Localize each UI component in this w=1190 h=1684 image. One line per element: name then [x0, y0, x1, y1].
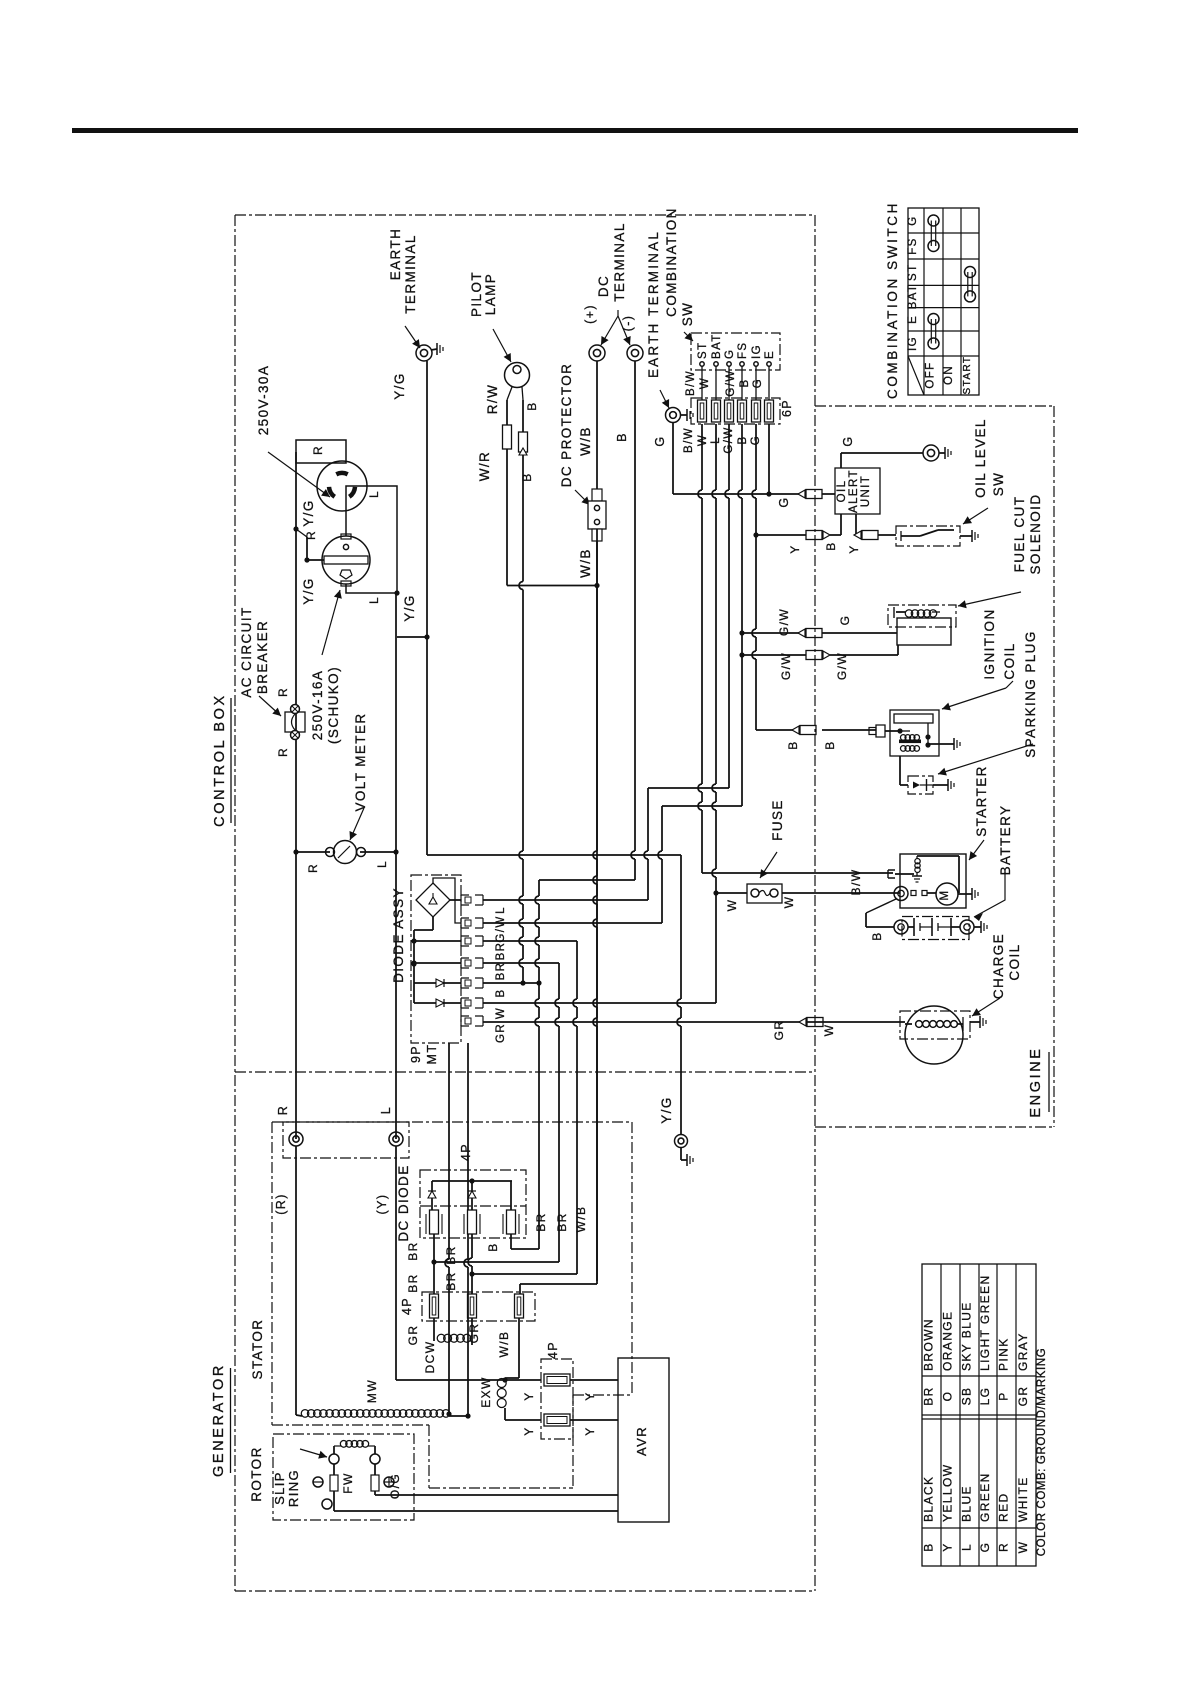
svg-text:BR: BR: [444, 1245, 458, 1264]
svg-text:G: G: [978, 1542, 992, 1553]
svg-text:L: L: [495, 906, 507, 914]
svg-text:OFF: OFF: [925, 361, 937, 388]
svg-text:EARTH TERMINAL: EARTH TERMINAL: [646, 230, 661, 378]
svg-text:B/W: B/W: [849, 869, 863, 896]
svg-text:G/W: G/W: [835, 652, 849, 680]
svg-text:W: W: [822, 1024, 836, 1037]
svg-text:BLACK: BLACK: [922, 1476, 936, 1522]
svg-text:Y/G: Y/G: [301, 577, 316, 604]
svg-text:COLOR COMB: GROUND/MARKING: COLOR COMB: GROUND/MARKING: [1036, 1348, 1048, 1557]
svg-text:G: G: [841, 435, 855, 446]
svg-text:BR: BR: [406, 1241, 420, 1260]
svg-text:WHITE: WHITE: [1016, 1476, 1030, 1522]
svg-text:G: G: [752, 378, 764, 388]
svg-text:M: M: [939, 890, 951, 901]
svg-text:B: B: [737, 435, 749, 444]
svg-text:W: W: [495, 1007, 507, 1019]
svg-text:BR: BR: [534, 1212, 548, 1231]
svg-text:G/W: G/W: [777, 608, 791, 636]
svg-text:DC PROTECTOR: DC PROTECTOR: [559, 363, 574, 488]
svg-text:START: START: [962, 356, 973, 395]
svg-text:(R): (R): [274, 1193, 288, 1215]
svg-text:G: G: [653, 435, 667, 446]
svg-text:E: E: [907, 315, 919, 324]
svg-text:LIGHT GREEN: LIGHT GREEN: [978, 1274, 992, 1371]
svg-text:COMBINATION: COMBINATION: [664, 207, 679, 317]
svg-text:Y: Y: [941, 1542, 955, 1551]
svg-text:Y/G: Y/G: [402, 594, 417, 621]
svg-text:B: B: [786, 740, 800, 749]
svg-text:G/W: G/W: [495, 915, 507, 942]
svg-text:(Y): (Y): [375, 1194, 389, 1215]
svg-text:G: G: [907, 215, 919, 225]
svg-text:Y: Y: [788, 544, 802, 553]
svg-text:BAT: BAT: [907, 284, 919, 310]
svg-text:Y/G: Y/G: [301, 499, 316, 526]
svg-text:Y: Y: [522, 1426, 536, 1435]
svg-text:ON: ON: [943, 365, 955, 385]
svg-text:B/W: B/W: [685, 370, 697, 396]
svg-text:R: R: [304, 530, 318, 540]
svg-text:BR: BR: [495, 962, 507, 981]
svg-text:GREEN: GREEN: [978, 1472, 992, 1522]
svg-text:BAT: BAT: [711, 333, 723, 359]
svg-text:GR: GR: [772, 1020, 786, 1041]
svg-text:OIL LEVEL: OIL LEVEL: [973, 418, 988, 498]
svg-text:GR: GR: [495, 1023, 507, 1043]
svg-text:SPARKING PLUG: SPARKING PLUG: [1023, 630, 1038, 757]
svg-text:Y/G: Y/G: [659, 1096, 674, 1123]
svg-text:YELLOW: YELLOW: [941, 1464, 955, 1522]
svg-text:G/W: G/W: [725, 369, 737, 396]
svg-text:MT: MT: [425, 1044, 439, 1065]
svg-text:Y/G: Y/G: [392, 372, 407, 399]
svg-text:ENGINE: ENGINE: [1028, 1046, 1044, 1117]
svg-text:SLIP: SLIP: [272, 1471, 287, 1505]
svg-text:BROWN: BROWN: [922, 1318, 936, 1371]
svg-text:IG: IG: [751, 344, 763, 359]
svg-text:VOLT METER: VOLT METER: [353, 712, 368, 811]
svg-text:GR: GR: [467, 1323, 481, 1344]
svg-text:STARTER: STARTER: [974, 765, 989, 837]
svg-text:CONTROL BOX: CONTROL BOX: [212, 693, 228, 827]
svg-text:BR: BR: [922, 1386, 936, 1405]
svg-text:G: G: [724, 349, 736, 359]
svg-text:IGNITION: IGNITION: [982, 608, 997, 679]
svg-text:B: B: [525, 401, 539, 410]
svg-text:PINK: PINK: [997, 1337, 1011, 1371]
svg-text:AVR: AVR: [634, 1426, 649, 1456]
svg-text:9P: 9P: [409, 1045, 423, 1063]
svg-text:SW: SW: [680, 302, 695, 327]
svg-text:TERMINAL: TERMINAL: [403, 234, 418, 313]
svg-text:COMBINATION SWITCH: COMBINATION SWITCH: [885, 201, 900, 399]
svg-text:FS: FS: [907, 237, 919, 255]
svg-text:(+): (+): [583, 304, 597, 324]
svg-text:COIL: COIL: [1007, 943, 1022, 980]
svg-text:MW: MW: [365, 1379, 379, 1403]
svg-text:L: L: [379, 1106, 393, 1114]
svg-text:R: R: [276, 747, 290, 757]
svg-text:LG: LG: [978, 1387, 992, 1406]
svg-text:Y: Y: [847, 544, 861, 553]
svg-text:DIODE ASSY: DIODE ASSY: [391, 887, 406, 983]
svg-text:O: O: [941, 1391, 955, 1402]
svg-text:6P: 6P: [780, 399, 794, 417]
svg-text:250V-16A: 250V-16A: [310, 670, 325, 741]
svg-text:(SCHUKO): (SCHUKO): [326, 666, 341, 744]
svg-text:W/B: W/B: [578, 548, 593, 578]
svg-text:W: W: [782, 896, 796, 909]
svg-text:BR: BR: [406, 1273, 420, 1292]
svg-text:EARTH: EARTH: [388, 228, 403, 281]
svg-text:DC DIODE: DC DIODE: [396, 1164, 411, 1241]
svg-text:B/W: B/W: [683, 427, 695, 453]
svg-text:IG: IG: [907, 336, 919, 351]
svg-text:GR: GR: [406, 1325, 420, 1346]
svg-text:TERMINAL: TERMINAL: [612, 222, 627, 301]
svg-text:W/B: W/B: [497, 1331, 511, 1358]
svg-text:SOLENOID: SOLENOID: [1028, 494, 1043, 575]
svg-text:BREAKER: BREAKER: [255, 620, 270, 694]
svg-text:L: L: [960, 1543, 974, 1551]
svg-text:B: B: [520, 472, 534, 481]
svg-text:GRAY: GRAY: [1016, 1332, 1030, 1371]
svg-text:B: B: [824, 541, 838, 550]
svg-text:Y: Y: [522, 1391, 536, 1400]
svg-text:R: R: [276, 687, 290, 697]
svg-text:B: B: [823, 740, 837, 749]
svg-text:OIL: OIL: [836, 480, 848, 503]
svg-text:ST: ST: [907, 263, 919, 281]
svg-text:EXW: EXW: [479, 1376, 493, 1408]
svg-text:G/W: G/W: [779, 652, 793, 680]
svg-text:W/R: W/R: [477, 451, 492, 481]
svg-text:B: B: [870, 931, 884, 940]
svg-text:DCW: DCW: [423, 1341, 437, 1374]
svg-text:FUEL CUT: FUEL CUT: [1012, 496, 1027, 573]
svg-text:RING: RING: [286, 1469, 301, 1507]
svg-text:COIL: COIL: [1002, 642, 1017, 679]
svg-text:B: B: [739, 378, 751, 387]
svg-text:LAMP: LAMP: [483, 273, 498, 315]
svg-text:GR: GR: [1016, 1386, 1030, 1407]
svg-text:W/B: W/B: [578, 426, 593, 456]
svg-text:4P: 4P: [459, 1143, 473, 1161]
svg-text:G: G: [838, 615, 852, 626]
svg-text:R: R: [311, 445, 325, 455]
svg-text:W: W: [1016, 1541, 1030, 1554]
svg-text:BR: BR: [495, 942, 507, 961]
svg-text:W/B: W/B: [574, 1206, 588, 1233]
svg-text:E: E: [764, 350, 776, 359]
svg-text:W: W: [725, 899, 739, 912]
svg-text:Y: Y: [583, 1426, 597, 1435]
svg-text:L: L: [367, 596, 381, 604]
svg-text:PILOT: PILOT: [469, 271, 484, 317]
svg-text:R/W: R/W: [485, 384, 500, 414]
svg-text:R: R: [997, 1542, 1011, 1552]
svg-text:P: P: [997, 1391, 1011, 1400]
svg-text:B: B: [495, 988, 507, 997]
svg-text:BLUE: BLUE: [960, 1485, 974, 1522]
svg-text:SB: SB: [960, 1387, 974, 1406]
svg-text:4P: 4P: [546, 1341, 560, 1359]
svg-text:L: L: [375, 860, 389, 868]
svg-text:4P: 4P: [400, 1297, 414, 1315]
svg-text:ALERT: ALERT: [848, 469, 860, 513]
svg-text:B: B: [615, 432, 629, 442]
svg-text:G: G: [777, 496, 791, 507]
svg-text:B: B: [922, 1542, 936, 1551]
svg-text:FW: FW: [341, 1472, 355, 1493]
svg-text:W: W: [697, 434, 709, 446]
svg-text:DC: DC: [596, 275, 611, 297]
svg-text:SW: SW: [991, 472, 1006, 497]
svg-text:R: R: [306, 863, 320, 873]
svg-text:BR: BR: [555, 1212, 569, 1231]
svg-text:BATTERY: BATTERY: [998, 805, 1013, 876]
svg-text:R: R: [276, 1105, 290, 1115]
svg-text:L: L: [367, 490, 381, 498]
svg-text:ROTOR: ROTOR: [249, 1446, 264, 1502]
svg-text:CHARGE: CHARGE: [991, 933, 1006, 999]
svg-text:W: W: [699, 377, 711, 389]
svg-text:GENERATOR: GENERATOR: [211, 1363, 227, 1477]
svg-text:BR: BR: [444, 1271, 458, 1290]
svg-text:UNIT: UNIT: [860, 475, 872, 507]
svg-text:250V-30A: 250V-30A: [256, 365, 271, 436]
svg-text:SKY BLUE: SKY BLUE: [960, 1301, 974, 1371]
svg-text:AC CIRCUIT: AC CIRCUIT: [239, 606, 254, 697]
svg-text:FUSE: FUSE: [770, 799, 785, 841]
svg-text:Y: Y: [583, 1391, 597, 1400]
svg-text:B: B: [486, 1242, 500, 1251]
svg-text:FS: FS: [737, 342, 749, 360]
svg-text:RED: RED: [997, 1492, 1011, 1522]
svg-text:ST: ST: [697, 342, 709, 360]
svg-text:STATOR: STATOR: [250, 1319, 265, 1380]
svg-text:ORANGE: ORANGE: [941, 1311, 955, 1371]
